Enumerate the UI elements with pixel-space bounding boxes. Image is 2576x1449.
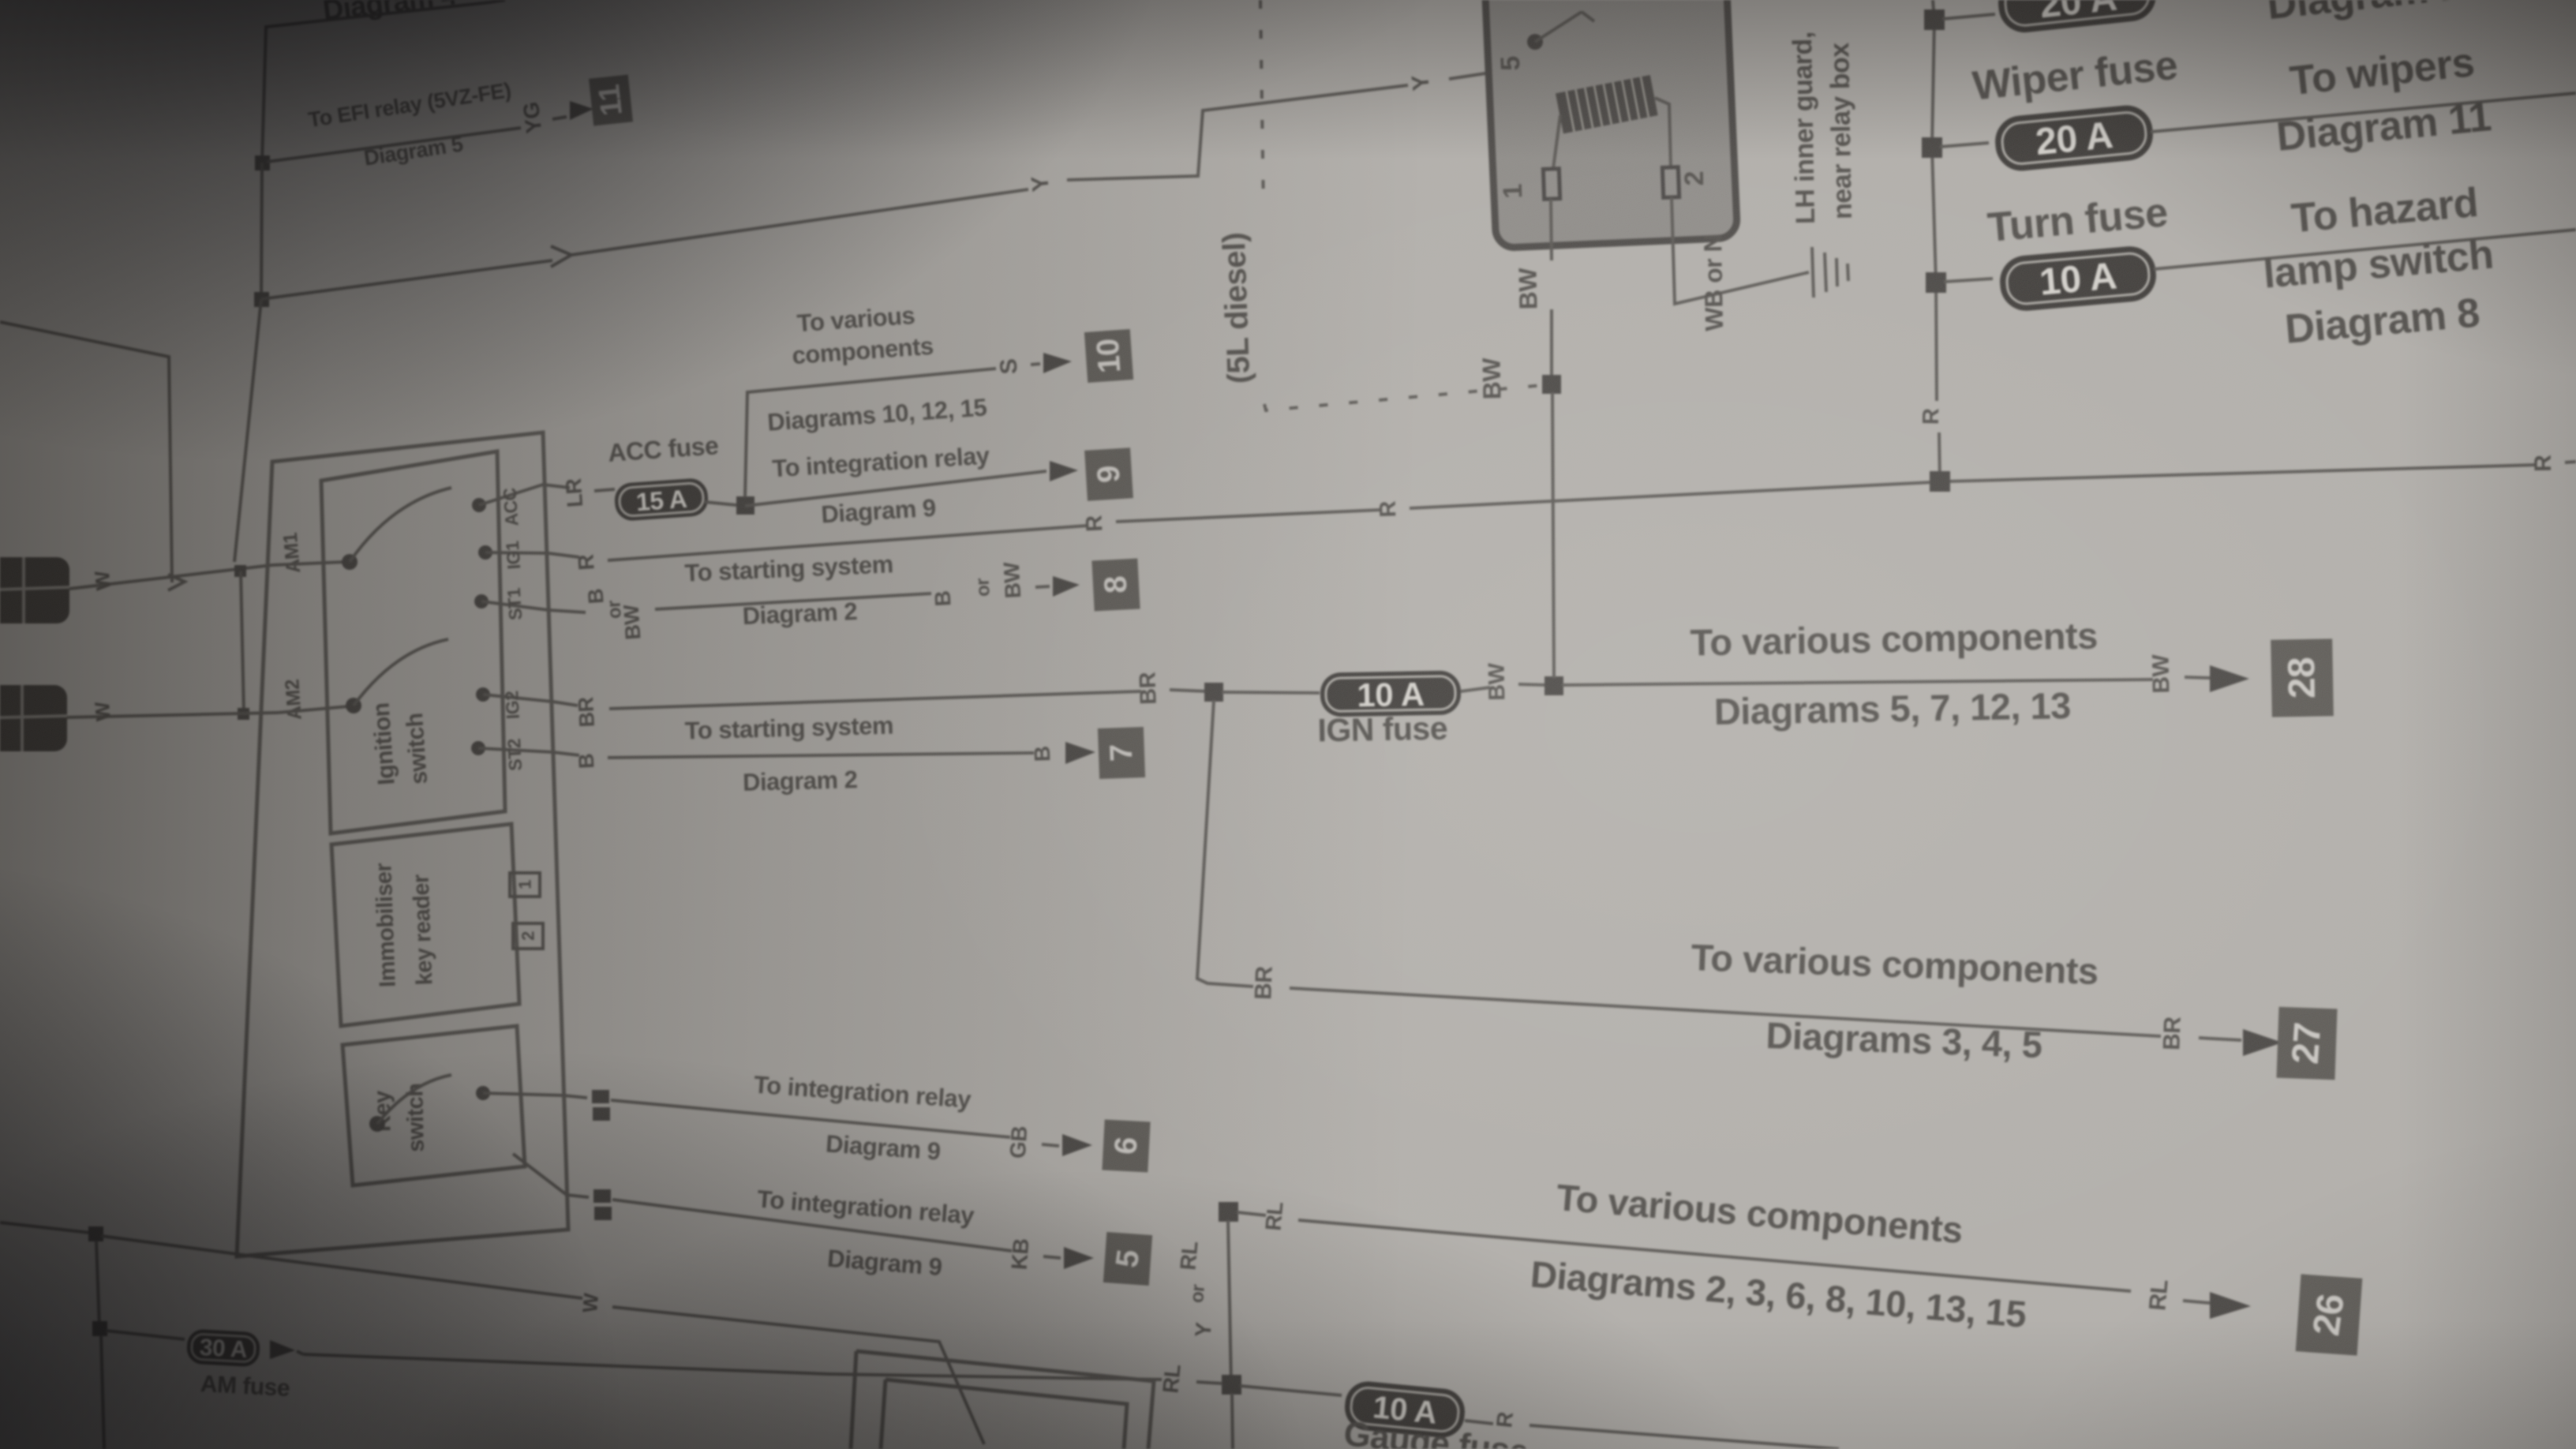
node open arrowhead on Y row — [551, 246, 571, 267]
junction IGN split — [1204, 683, 1223, 702]
junction RL upper — [1219, 1202, 1238, 1222]
node AM1 contact dot — [342, 554, 358, 570]
wire R right edge stub — [2565, 462, 2576, 462]
wire left edge to Ja — [0, 1222, 90, 1233]
wire BW28 stub — [2185, 677, 2210, 678]
wire LR to fuse — [594, 489, 615, 491]
connector 5 — [1103, 1232, 1152, 1286]
wire 27 branch vertical — [1197, 700, 1253, 987]
pin 2 immobiliser — [513, 923, 543, 949]
wire Y into relay pin 5 — [1449, 47, 1529, 79]
junction bus top fuse — [1924, 9, 1945, 30]
wire junction to gauge fuse — [1240, 1386, 1342, 1395]
wire stub to turn fuse — [1944, 279, 1993, 282]
wire after bottomleft arrow — [297, 1351, 303, 1354]
junction bus turn — [1926, 272, 1946, 293]
wire KB row from box — [567, 1195, 589, 1197]
junction ACC split — [736, 496, 754, 515]
wire ST1 row start — [549, 610, 586, 612]
wire W row diagonal into box — [612, 1307, 984, 1444]
wire pin 2 down to ground run — [1672, 197, 1809, 304]
fuse F-IGN 10A — [1320, 670, 1462, 717]
node ST2 contact dot — [471, 741, 485, 755]
node arrow to connector 27 — [2243, 1029, 2282, 1056]
connector C2 left edge — [0, 685, 67, 751]
fuse F-wiper 20A — [1993, 103, 2155, 174]
relay coil — [1556, 75, 1658, 133]
node arrow to connector 11 — [570, 101, 593, 120]
wire RL vertical between junctions — [1228, 1220, 1231, 1384]
wire stub to top fuse — [1942, 14, 1995, 19]
wire right bus — [1932, 0, 1937, 401]
wire turn row right — [2154, 230, 2576, 269]
wire dashed 5L diesel vertical — [1260, 0, 1264, 210]
wire RL26 stub — [2183, 1301, 2210, 1303]
wire BW vertical lower — [1552, 392, 1554, 678]
junction Jb — [92, 1321, 107, 1336]
wire Jb to bottom edge — [101, 1335, 104, 1449]
node key switch contact dot — [369, 1116, 385, 1132]
node IG1 contact dot — [478, 545, 492, 560]
fuse F-turn 10A — [1998, 245, 2158, 313]
relay box (shaded) — [1484, 0, 1738, 248]
wire BW to junction — [1518, 684, 1547, 685]
node arrow to connector 10 — [1043, 353, 1072, 373]
wire AM2 inside box — [278, 706, 349, 713]
node arrow to connector 8 — [1053, 576, 1080, 597]
wire R row segment 3 — [1116, 510, 1381, 522]
wire IG1 dot to edge — [485, 552, 549, 553]
pin 1 contact — [1543, 169, 1559, 200]
connector 7 — [1098, 727, 1145, 779]
node ST1 contact dot — [474, 594, 489, 608]
wire bus below R — [1939, 432, 1940, 481]
wire ACC dot to edge — [479, 485, 543, 505]
ignition switch assembly outer box — [237, 432, 568, 1256]
wire W row — [101, 1236, 582, 1298]
wire fuse to BW — [1461, 687, 1490, 691]
wire R row segment 4 — [1410, 482, 1933, 508]
wire KB stub — [1043, 1256, 1061, 1258]
wire riser to S row — [745, 369, 996, 497]
wire AM1 inside box — [272, 562, 345, 565]
connector 9 — [1084, 447, 1133, 500]
junction AM1 link — [234, 565, 246, 577]
node arrow to connector 5 — [1064, 1247, 1094, 1269]
node IG2 contact dot — [476, 687, 490, 702]
node arrow to connector 28 — [2210, 665, 2249, 692]
wire stub to wiper fuse — [1940, 143, 1989, 147]
wire relay switch arm — [1535, 12, 1582, 42]
wire BR2 to junction — [1170, 690, 1207, 691]
wire AM1 row — [69, 565, 272, 589]
wire branch vertical x216 — [0, 322, 172, 582]
node AM2 contact dot — [346, 698, 361, 713]
wire GB row — [611, 1100, 1010, 1137]
node ACC contact dot — [472, 498, 486, 512]
wire conn28 row — [1562, 680, 2153, 685]
wire ST1 dot to edge — [481, 601, 549, 610]
wire dashed 5L diesel elbow — [1264, 385, 1544, 410]
connector 27 — [2276, 1007, 2337, 1080]
wire R row to right edge — [1948, 465, 2537, 481]
wire IG2 dot to edge — [483, 695, 552, 702]
connector 26 — [2296, 1274, 2363, 1355]
instrument box bottom inner — [881, 1380, 1127, 1449]
wire RL vertical to bottom edge — [1232, 1393, 1233, 1449]
wire AM2 row — [67, 713, 278, 717]
instrument box bottom outer — [851, 1351, 1154, 1449]
wire IGN row to BR2 — [609, 691, 1141, 709]
wire BW vertical upper — [1550, 309, 1553, 377]
wire top-left corner riser — [262, 0, 505, 163]
wire pin 1 down — [1551, 199, 1552, 260]
wire from J2 down to AM1 row — [234, 299, 261, 562]
wire B stub 8 — [1035, 586, 1050, 587]
node key switch fixed dot — [476, 1086, 490, 1100]
junction diesel link — [1542, 375, 1561, 394]
wire gauge fuse to R — [1465, 1421, 1493, 1424]
wire J1 to J2 vertical — [261, 163, 262, 299]
wire EFI relay row — [267, 128, 521, 162]
node pin 5 dot — [1527, 34, 1543, 50]
wire conn7 row — [608, 753, 1034, 758]
wire coil right lead to pin 2 — [1655, 98, 1671, 167]
junction J1 — [255, 155, 270, 170]
wire connector 9 row — [745, 471, 1046, 506]
wire ACC row to LR — [543, 485, 570, 488]
wire junction to IGN fuse — [1222, 692, 1320, 693]
junction bus R row — [1930, 471, 1950, 492]
wire Ja to Jb vertical — [96, 1241, 99, 1328]
immobiliser key reader box — [331, 824, 519, 1026]
wire GB row from box — [563, 1095, 587, 1098]
connector 8 — [1091, 559, 1140, 612]
connector 28 — [2271, 638, 2334, 717]
pin 2 contact — [1662, 167, 1679, 198]
wire Y row step up — [1067, 85, 1408, 180]
wire IG1 R row start — [549, 553, 579, 557]
wire Y row left segment — [261, 260, 552, 299]
wire conn27 row — [1290, 988, 2161, 1036]
node arrow to connector 9 — [1050, 461, 1078, 481]
wire fuse to junction — [705, 502, 736, 505]
wire IG2 row start — [552, 702, 578, 706]
inline connector KB — [593, 1189, 611, 1203]
wire coil left lead to pin 1 — [1553, 115, 1560, 169]
wire key switch to edge KB — [513, 1154, 567, 1195]
wire Y row to label — [571, 189, 1028, 255]
wire ignition switch arm lower — [354, 639, 448, 706]
wire wiper row right — [2151, 93, 2576, 132]
node arrow to connector 26 — [2210, 1292, 2251, 1319]
wire Jb to fuse — [106, 1331, 185, 1339]
wire GB stub — [1042, 1144, 1059, 1146]
wire key switch to edge GB — [483, 1093, 563, 1095]
wire RL bottom stub — [1196, 1382, 1222, 1383]
wire key switch arm — [377, 1075, 451, 1124]
wire RL stub right — [1237, 1212, 1266, 1215]
wire S stub — [1031, 364, 1040, 365]
fuse F-ACC 15A — [613, 477, 709, 522]
wire YG stub — [552, 117, 567, 119]
wire ST2 dot to edge — [478, 748, 552, 752]
connector 10 — [1084, 329, 1133, 383]
junction bus wiper — [1922, 137, 1942, 158]
wire ST2 row start — [552, 752, 579, 755]
inline connector GB — [592, 1090, 609, 1103]
node chevron AM1 — [168, 575, 185, 590]
connector C1 left edge — [0, 557, 69, 623]
junction BW split — [1544, 676, 1563, 695]
wire link AM1 to AM2 — [241, 571, 244, 714]
node arrow to connector 6 — [1062, 1134, 1092, 1156]
node relay fixed contact tick — [1582, 12, 1594, 21]
fuse F-gauge 10A — [1342, 1380, 1466, 1440]
junction J2 — [254, 292, 269, 307]
ground symbol — [1812, 247, 1848, 298]
fuse F-bottomleft — [186, 1329, 260, 1368]
pin 1 immobiliser — [510, 873, 540, 897]
node arrow to connector 7 — [1065, 742, 1095, 764]
wire BR27 stub — [2199, 1038, 2241, 1040]
connector 11 — [589, 75, 633, 126]
wire bottom row left of junction — [303, 1354, 1162, 1380]
wire R row segment 2 — [608, 526, 1088, 560]
junction RL lower — [1222, 1375, 1241, 1395]
connector 6 — [1102, 1120, 1150, 1173]
ignition switch inner box — [321, 451, 505, 833]
wire ignition switch arm upper — [350, 488, 451, 562]
wire conn26 row — [1298, 1220, 2131, 1291]
fuse F-top 20A — [1996, 0, 2159, 35]
wire R bottom exit — [1529, 1425, 1839, 1449]
key switch box — [343, 1026, 525, 1185]
wire conn8 row — [655, 593, 931, 609]
node arrow bottomleft — [270, 1340, 295, 1359]
junction AM2 link — [238, 708, 249, 720]
junction Ja — [88, 1226, 103, 1241]
wire KB row — [612, 1200, 1012, 1251]
